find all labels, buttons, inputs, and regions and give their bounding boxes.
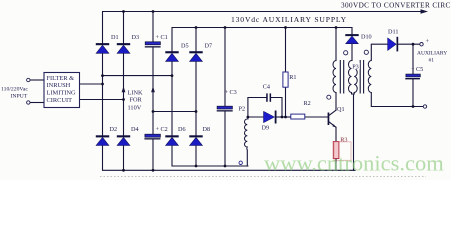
wire Q1 emitter down <box>335 127 337 141</box>
wire col D1/D2 bottom to bus <box>103 146 356 171</box>
svg-text:130Vdc AUXILIARY SUPPLY: 130Vdc AUXILIARY SUPPLY <box>231 15 347 24</box>
wire R1 column <box>285 28 287 73</box>
wire D9 anode row <box>248 116 264 118</box>
wire T2 sec bottom to aux neg <box>371 93 423 107</box>
diode D1 <box>96 43 109 53</box>
wire input top <box>30 79 44 81</box>
wire top 300V bus <box>103 12 422 44</box>
wire col D7/D8 mid <box>195 61 197 135</box>
diode D11 <box>388 37 399 52</box>
wire C5 bottom <box>412 79 414 106</box>
capacitor C1 <box>145 42 161 48</box>
svg-text:D3: D3 <box>132 34 140 41</box>
link arrow right <box>151 86 155 92</box>
label 110/220Vac INPUT <box>1 87 28 100</box>
diode D2 <box>96 135 109 145</box>
input terminal L <box>27 78 30 81</box>
resistor R1 <box>283 72 288 87</box>
svg-text:110V: 110V <box>128 104 142 111</box>
aux negative terminal <box>423 105 426 108</box>
wire col D1/D2 mid <box>102 53 104 135</box>
wire col D7/D8 top <box>195 28 197 52</box>
filter box <box>44 73 80 108</box>
wire col D5/D6 mid <box>171 61 173 135</box>
svg-text:D11: D11 <box>388 29 398 36</box>
svg-text:110/220Vac: 110/220Vac <box>1 87 28 93</box>
svg-text:D2: D2 <box>110 126 118 133</box>
svg-text:D9: D9 <box>262 125 270 132</box>
transformer T1 core <box>340 60 343 94</box>
label LINK FOR 110V <box>128 89 143 111</box>
wire col D5/D6 bottom <box>172 146 248 167</box>
wire input bottom <box>30 102 44 104</box>
aux positive terminal <box>420 43 423 46</box>
svg-text:+ C2: + C2 <box>156 126 168 133</box>
annotation box around R3 <box>334 142 351 161</box>
diode D4 <box>117 135 130 145</box>
resistor R2 <box>291 114 305 119</box>
wire col C1/C2 bottom <box>152 140 154 171</box>
svg-text:300VDC TO CONVERTER CIRCUIT: 300VDC TO CONVERTER CIRCUIT <box>341 1 451 9</box>
capacitor C2 <box>144 134 160 139</box>
inductor P2 <box>245 119 248 150</box>
wire C4 left <box>248 98 266 120</box>
svg-text:FILTER &: FILTER & <box>47 75 75 82</box>
diode D3 <box>117 43 130 53</box>
wire col C3 top <box>224 28 226 107</box>
svg-text:D6: D6 <box>178 126 186 133</box>
wire col C1/C2 top <box>152 12 154 42</box>
svg-text:R3: R3 <box>340 136 347 143</box>
phase dot T1 primary <box>327 95 331 99</box>
wire C4 right corner <box>271 98 282 118</box>
wire T2 pri bottom stub <box>353 93 355 95</box>
resistor R3 <box>333 142 339 159</box>
wire T1 primary top <box>335 28 337 61</box>
svg-text:www.cntronics.com: www.cntronics.com <box>264 151 444 176</box>
wire col C3 bottom <box>224 112 226 167</box>
wire ac line1 row <box>103 75 173 77</box>
svg-text:R2: R2 <box>304 100 311 107</box>
svg-text:D8: D8 <box>203 126 211 133</box>
inductor P2 lower wire <box>246 150 248 166</box>
svg-text:Q1: Q1 <box>337 106 345 113</box>
diode D6 <box>165 135 178 145</box>
svg-text:C4: C4 <box>263 84 270 91</box>
diode D5 <box>165 51 178 61</box>
diode D10 <box>345 34 358 44</box>
transformer T2 primary winding <box>354 69 357 93</box>
wire R3 bottom <box>335 159 337 171</box>
transformer T2 secondary winding <box>368 61 371 93</box>
link arrow left <box>122 86 126 92</box>
diode D8 <box>189 135 202 145</box>
wire col D3/D4 mid <box>123 53 125 135</box>
wire T1 primary bottom to Q1 collector <box>335 93 337 111</box>
svg-text:D5: D5 <box>181 42 189 49</box>
wire D10 to T1 secondary <box>351 44 353 61</box>
svg-text:+: + <box>426 38 430 45</box>
svg-text:FOR: FOR <box>130 97 143 104</box>
svg-text:CIRCUIT: CIRCUIT <box>47 97 73 104</box>
svg-text:D4: D4 <box>131 126 139 133</box>
diode D7 <box>189 51 202 61</box>
wire T2 sec top to D11 <box>371 44 387 60</box>
svg-text:R1: R1 <box>289 74 296 81</box>
svg-text:LIMITING: LIMITING <box>47 90 76 97</box>
svg-text:D10: D10 <box>361 34 372 41</box>
svg-text:P3: P3 <box>352 64 359 71</box>
capacitor C3 <box>217 106 233 111</box>
capacitor C4 <box>266 93 271 101</box>
svg-text:P2: P2 <box>239 105 246 112</box>
wire filter out2 <box>80 99 124 101</box>
svg-text:+ C3: + C3 <box>225 89 237 96</box>
transformer T1 primary winding <box>333 61 336 93</box>
capacitor C5 <box>405 74 420 79</box>
phase dot T2 secondary <box>364 50 368 54</box>
top bus arrow <box>421 9 429 13</box>
wire R1 bottom <box>285 87 287 117</box>
wire mid row C to E <box>153 111 196 113</box>
svg-text:+ C1: + C1 <box>156 34 168 41</box>
wire col D3/D4 bottom <box>123 146 125 171</box>
phase dot T1 secondary <box>344 51 348 55</box>
label P3 <box>352 63 360 71</box>
svg-text:+ C5: + C5 <box>411 66 423 73</box>
transistor Q1 <box>328 110 336 127</box>
input terminal N <box>27 101 30 104</box>
terminal circle P2 bottom <box>239 161 242 164</box>
transformer T1 secondary winding <box>349 61 352 93</box>
svg-text:LINK: LINK <box>128 89 143 96</box>
diode D9 <box>264 111 277 124</box>
wire D11 cathode to aux terminal <box>398 43 420 45</box>
svg-text:D1: D1 <box>111 34 119 41</box>
wire col D7/D8 bottom <box>195 146 197 167</box>
svg-text:AUXILIARY: AUXILIARY <box>417 50 447 56</box>
svg-text:#1: #1 <box>429 58 435 64</box>
wire col D3/D4 top <box>123 12 125 44</box>
bottom dotted border <box>100 176 426 178</box>
wire filter out1 <box>80 83 103 85</box>
wire R2 to Q1 base <box>305 116 328 118</box>
label AUXILIARY #1 <box>417 50 447 63</box>
svg-text:INPUT: INPUT <box>11 94 28 100</box>
wire D9 cathode to R2 <box>277 116 291 118</box>
wire C5 top <box>412 44 414 74</box>
wire T1 sec bottom / T2 pri bottom down <box>352 93 354 171</box>
svg-text:INRUSH: INRUSH <box>47 82 71 89</box>
wire 130V second bus <box>172 28 352 52</box>
svg-text:D7: D7 <box>205 42 213 49</box>
transformer T2 core <box>360 60 363 94</box>
wire col C1/C2 mid <box>152 48 154 135</box>
